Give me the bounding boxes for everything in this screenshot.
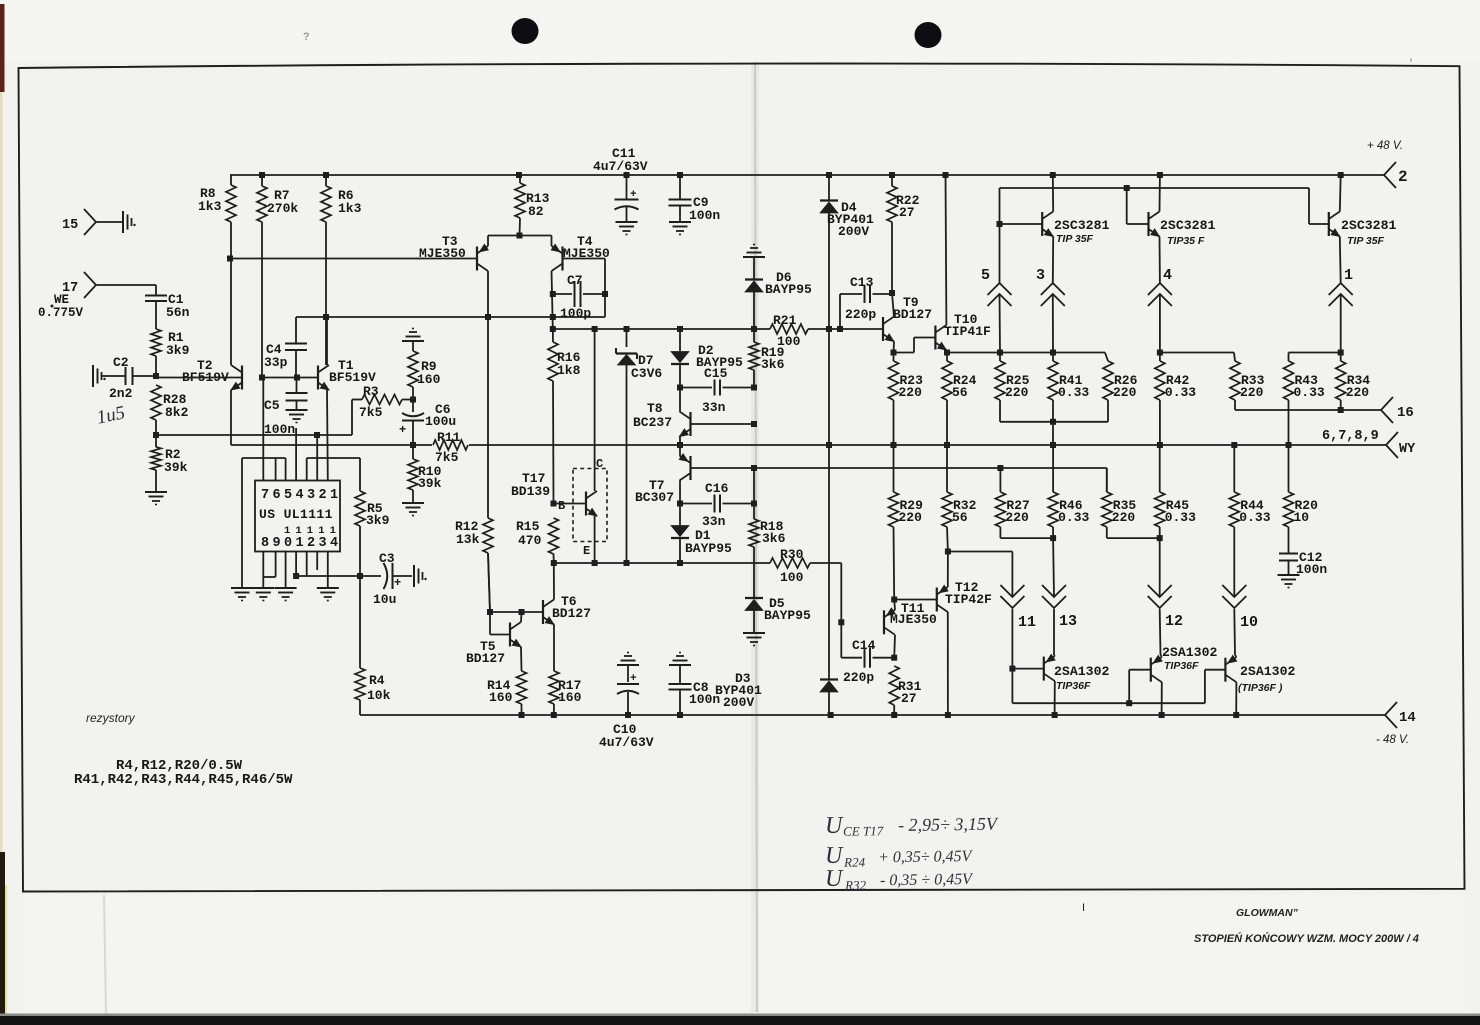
resistor R22 27 [887, 175, 920, 293]
svg-text:7654321: 7654321 [261, 488, 342, 503]
svg-text:C7: C7 [567, 273, 583, 288]
ground IC pin d [317, 587, 339, 589]
diode D3 BYP401 200V [715, 671, 838, 715]
svg-text:2SA1302: 2SA1302 [1054, 664, 1109, 679]
diode D2 BAYP95 [671, 329, 743, 388]
svg-text:TIP 35F: TIP 35F [1056, 233, 1094, 245]
svg-text:US UL1111: US UL1111 [259, 507, 333, 522]
bottom scanner black band [0, 1016, 1480, 1025]
svg-text:5: 5 [981, 267, 990, 284]
svg-text:R3: R3 [363, 384, 379, 399]
svg-text:R24: R24 [843, 854, 866, 869]
resistor R32 56 [942, 445, 977, 527]
inverted ground above C8 [669, 664, 691, 666]
output transistor 2SC3281 #1 [1042, 212, 1109, 246]
wire T5 collector [520, 612, 523, 622]
wire Q3 emitter / connector 1 column [1339, 237, 1342, 284]
IC pin stubs bottom [262, 552, 264, 589]
IC pin stubs top [262, 378, 264, 481]
svg-text:27: 27 [899, 205, 915, 220]
resistor R16 1k8 [548, 329, 581, 504]
svg-text:0.33: 0.33 [1165, 510, 1196, 525]
svg-text:C14: C14 [852, 638, 876, 653]
wire bias rail upper (y329) [553, 328, 770, 330]
svg-text:13: 13 [1059, 613, 1077, 630]
svg-text:10k: 10k [367, 688, 391, 703]
svg-text:- 2,95÷ 3,15V: - 2,95÷ 3,15V [898, 814, 999, 835]
ground at D5 [743, 632, 765, 634]
svg-text:16: 16 [1397, 405, 1414, 421]
capacitor C16 33n [680, 481, 754, 529]
ground at R10 [402, 502, 424, 504]
resistor R21 100 (inline bias rail) [770, 313, 808, 349]
wire T2 base [155, 376, 157, 378]
wire T17 base [554, 503, 587, 505]
svg-text:220: 220 [1112, 510, 1136, 525]
svg-text:6,7,8,9: 6,7,8,9 [1322, 429, 1379, 444]
svg-text:100: 100 [777, 334, 801, 349]
svg-text:220: 220 [1240, 385, 1264, 400]
resistor R13 82 [515, 175, 550, 236]
connector 14 (-48V) [1376, 702, 1416, 746]
wire T8 base line [691, 423, 755, 425]
wire base drive line y188 [1000, 187, 1310, 189]
svg-text:2SA1302: 2SA1302 [1240, 664, 1295, 679]
wire T10 emitter line to R25/R41 [947, 352, 1105, 354]
svg-text:0.33: 0.33 [1165, 385, 1196, 400]
wire T11 collector to C14/R31 [893, 635, 896, 658]
svg-text:82: 82 [528, 204, 544, 219]
svg-text:E: E [583, 544, 590, 558]
svg-text:13k: 13k [456, 532, 480, 547]
wire T3 base line [230, 258, 477, 260]
svg-text:C: C [596, 457, 603, 471]
wire T2 emitter to output rail [230, 390, 232, 445]
svg-text:CE T17: CE T17 [843, 823, 884, 839]
page fold line [751, 62, 759, 1012]
capacitor C8 100n [669, 665, 721, 715]
svg-text:U: U [825, 813, 844, 839]
border frame [19, 63, 1465, 891]
svg-text:2: 2 [1398, 168, 1408, 186]
wire T3 emitter [487, 236, 489, 247]
resistor R44 0.33 [1229, 445, 1270, 527]
capacitor C13 220p [840, 275, 892, 329]
wire base Q1 [1000, 223, 1043, 225]
svg-text:1: 1 [1344, 267, 1353, 284]
svg-text:R30: R30 [780, 547, 804, 562]
svg-text:3k9: 3k9 [366, 513, 390, 528]
wire Q2 emitter / connector 4 column [1159, 237, 1161, 284]
wire T12 collector to -48 rail [947, 612, 949, 715]
svg-text:56: 56 [952, 510, 968, 525]
resistor R20 10 [1284, 445, 1319, 527]
handwritten UR32 [825, 864, 974, 893]
svg-text:1k3: 1k3 [338, 201, 362, 216]
svg-text:160: 160 [489, 690, 513, 705]
svg-text:3k6: 3k6 [761, 357, 785, 372]
handwritten 1u5 [95, 402, 127, 428]
capacitor C12 100n [1279, 527, 1327, 577]
svg-text:U: U [825, 866, 844, 892]
resistor R27 220 [995, 468, 1029, 527]
capacitor C14 220p [841, 622, 894, 685]
transistor T6 BD127 [543, 594, 591, 625]
resistor R33 220 [1230, 361, 1265, 401]
wire 2SA1302#3 emitter [1235, 655, 1236, 657]
svg-text:8901234: 8901234 [261, 536, 342, 551]
wire T7 collector [679, 481, 681, 504]
wire T11 base [838, 619, 844, 625]
svg-text:220: 220 [1113, 385, 1137, 400]
transistor T2 BF519V [182, 358, 242, 390]
wire T8 emitter to WY rail [679, 437, 681, 446]
svg-text:470: 470 [518, 533, 542, 548]
resistor R24 56 [942, 353, 977, 401]
svg-text:WE: WE [54, 293, 69, 307]
ground IC pin a [231, 587, 253, 589]
capacitor C10 4u7/63V [599, 665, 654, 750]
svg-text:R41,R42,R43,R44,R45,R46/5W: R41,R42,R43,R44,R45,R46/5W [74, 772, 293, 788]
svg-text:+: + [394, 576, 401, 590]
capacitor C5 100n [264, 378, 308, 438]
diode D5 BAYP95 [745, 596, 811, 633]
svg-text:100n: 100n [689, 208, 720, 223]
wire Q1 emitter / connector 3 column [1052, 237, 1054, 284]
svg-text:12: 12 [1165, 613, 1183, 630]
output transistor 2SC3281 #2 [1149, 212, 1216, 248]
resistor R34 220 [1336, 353, 1371, 401]
wire +48V top rail [230, 174, 1384, 176]
svg-text:C13: C13 [850, 275, 874, 290]
capacitor C11 4u7/63V [593, 146, 648, 222]
node R7/T1 base [259, 375, 265, 381]
connector 16 [1381, 397, 1414, 423]
wire T7 emitter from WY rail [679, 445, 681, 456]
svg-text:1k3: 1k3 [198, 199, 222, 214]
svg-text:8k2: 8k2 [165, 405, 189, 420]
svg-text:- 0,35 ÷ 0,45V: - 0,35 ÷ 0,45V [880, 871, 974, 889]
resistor R11 7k5 (inline) [433, 430, 468, 465]
wire bias rail lower (y563) [554, 562, 770, 564]
ground at C5 [286, 409, 308, 411]
svg-text:2SC3281: 2SC3281 [1160, 218, 1215, 233]
svg-text:220p: 220p [845, 307, 876, 322]
svg-text:56n: 56n [166, 305, 190, 320]
wire IC to C3 node [296, 575, 360, 577]
capacitor C15 33n [680, 366, 754, 415]
handwritten UceT17 [825, 811, 999, 839]
wire T10 collector to +48 [945, 175, 948, 325]
svg-text:B: B [558, 499, 565, 513]
svg-text:C16: C16 [705, 481, 729, 496]
svg-text:200V: 200V [723, 695, 754, 710]
wire T9/T10 emitter-base step [894, 352, 915, 354]
resistor R7 270k [257, 175, 298, 376]
wire R42/R33 top link [1160, 352, 1234, 354]
connector WY 6,7,8,9 [1322, 429, 1416, 458]
wire D4 column to D3 [828, 329, 830, 445]
svg-text:10u: 10u [373, 592, 396, 607]
svg-text:33n: 33n [702, 400, 726, 415]
svg-text:14: 14 [1399, 710, 1416, 726]
diode D4 BYP401 200V [820, 175, 874, 329]
resistor R14 160 [487, 671, 527, 715]
resistor R8 1k3 [198, 175, 236, 259]
svg-text:2SC3281: 2SC3281 [1341, 218, 1396, 233]
ground at C12 [1278, 574, 1300, 576]
svg-text:3k6: 3k6 [762, 531, 786, 546]
capacitor C9 100n [669, 175, 721, 223]
connector pin 12 [1159, 538, 1161, 597]
node R22/C13/T9 collector [889, 290, 895, 296]
dark scan edge bottom-left [0, 852, 5, 1017]
svg-text:100u: 100u [425, 414, 456, 429]
resistor R43 0.33 [1284, 361, 1325, 401]
wire T12 emitter [947, 552, 949, 588]
capacitor C7 100p [550, 273, 608, 321]
svg-text:0.775V: 0.775V [38, 306, 84, 320]
svg-text:7k5: 7k5 [435, 450, 459, 465]
resistor R41 0.33 [1048, 353, 1089, 401]
transistor T8 BC237 [633, 388, 691, 437]
svg-text:TIP42F: TIP42F [945, 592, 992, 607]
output transistor 2SC3281 #3 [1329, 212, 1397, 248]
transistor T3 MJE350 [419, 234, 488, 271]
svg-text:R32: R32 [844, 877, 867, 892]
node C2/R1/R28 junction [153, 373, 159, 379]
svg-text:BAYP95: BAYP95 [765, 282, 812, 297]
svg-text:220: 220 [899, 385, 923, 400]
svg-text:TIP41F: TIP41F [944, 324, 991, 339]
resistor R4 10k [355, 576, 391, 715]
wire T12 emitter line to connector 11 [948, 551, 1013, 553]
svg-text:15: 15 [62, 218, 78, 233]
svg-text:0.33: 0.33 [1058, 385, 1089, 400]
svg-text:2n2: 2n2 [109, 386, 133, 401]
resistor R1 3k9 [151, 329, 190, 358]
output transistor 2SA1302 #2 [1151, 645, 1218, 682]
svg-text:2SC3281: 2SC3281 [1054, 218, 1109, 233]
inverted ground above C10 [617, 664, 639, 666]
resistor R6 1k3 [321, 175, 362, 365]
resistor R45 0.33 [1155, 445, 1196, 527]
svg-text:TIP36F: TIP36F [1056, 680, 1091, 692]
wire T11/T12 base link [894, 599, 937, 601]
svg-text:TIP36F: TIP36F [1164, 660, 1199, 672]
svg-text:BF519V: BF519V [329, 370, 376, 385]
resistor R31 27 [889, 666, 921, 715]
chassis ground at C2 [92, 365, 94, 387]
svg-text:R4: R4 [369, 673, 385, 688]
svg-text:BC307: BC307 [635, 490, 674, 505]
ground at R2 [145, 491, 167, 493]
svg-text:0.33: 0.33 [1239, 510, 1270, 525]
wire T10 emitter [945, 350, 948, 353]
ground at C9 [669, 221, 691, 223]
svg-text:100n: 100n [1296, 562, 1327, 577]
svg-text:2SA1302: 2SA1302 [1162, 645, 1217, 660]
transistor T11 MJE350 [884, 601, 937, 635]
svg-text:200V: 200V [838, 224, 869, 239]
wire T6 collector [553, 563, 555, 600]
svg-text:3k9: 3k9 [166, 343, 190, 358]
svg-text:T8: T8 [647, 401, 663, 416]
wire T4 collector column [552, 271, 553, 329]
wire T4 emitter [551, 236, 553, 247]
svg-text:C2: C2 [113, 355, 129, 370]
svg-text:rezystory: rezystory [86, 711, 136, 725]
wire T1 collector to R6 [326, 317, 328, 365]
transistor T4 MJE350 [551, 234, 610, 271]
wire T17 emitter [594, 516, 596, 563]
capacitor C6 100u [399, 400, 456, 446]
svg-text:C3V6: C3V6 [631, 366, 662, 381]
connector 17 WE input [38, 272, 156, 320]
svg-text:BD139: BD139 [511, 484, 550, 499]
svg-text:GLOWMAN”: GLOWMAN” [1236, 907, 1299, 919]
svg-text:BD127: BD127 [552, 606, 591, 621]
svg-text:TIP35 F: TIP35 F [1167, 235, 1205, 247]
svg-text:- 48 V.: - 48 V. [1376, 734, 1409, 746]
svg-text:R15: R15 [516, 519, 540, 534]
inverted ground above R9 [402, 340, 424, 342]
svg-text:MJE350: MJE350 [890, 612, 937, 627]
wire T4 base loop right [563, 258, 606, 260]
wire 2SA1302#1 base [1012, 668, 1043, 670]
connector pin 5 [999, 224, 1001, 283]
svg-text:TIP 35F: TIP 35F [1347, 235, 1385, 247]
wire 16 line (y410) [1235, 409, 1381, 411]
wire T9 collector [892, 293, 894, 317]
transistor T1 BF519V [318, 358, 376, 390]
svg-text:STOPIEŃ KOŃCOWY WZM. MOCY 200W: STOPIEŃ KOŃCOWY WZM. MOCY 200W / 4 [1194, 932, 1419, 945]
wire 2SA1302#1 emitter [1053, 655, 1056, 656]
svg-text:11: 11 [1018, 614, 1036, 631]
svg-text:BD127: BD127 [893, 307, 932, 322]
connector pin 4 [1148, 267, 1172, 306]
wire T6 base line [490, 611, 543, 613]
resistor R46 0.33 [1048, 445, 1089, 527]
svg-text:1k8: 1k8 [557, 363, 581, 378]
svg-text:3: 3 [1036, 267, 1045, 284]
connector 15 [62, 209, 122, 235]
zener D7 C3V6 [616, 329, 662, 563]
svg-text:BAYP95: BAYP95 [685, 541, 732, 556]
svg-text:160: 160 [417, 372, 441, 387]
svg-text:WY: WY [1399, 442, 1416, 457]
resistor R9 160 [408, 341, 441, 400]
wire T1 emitter to IC pin1 [326, 390, 329, 480]
svg-text:BC237: BC237 [633, 415, 672, 430]
punch hole right [915, 22, 942, 48]
wire pin6 bypass to ground [241, 458, 243, 588]
svg-text:220: 220 [1346, 385, 1370, 400]
svg-text:C15: C15 [704, 366, 728, 381]
wire R35 bottom to R45 column [1106, 527, 1108, 538]
resistor R12 13k [455, 317, 493, 612]
red scan edge top-left [0, 4, 5, 92]
wire R25/R26 bottoms y422 [999, 400, 1001, 422]
wire y317 line (T3 collector net) [296, 316, 605, 318]
resistor R23 220 [889, 353, 924, 401]
svg-text:100n: 100n [689, 692, 720, 707]
chassis ground at C3 [413, 565, 415, 587]
svg-text:R21: R21 [773, 313, 797, 328]
node R9/C6/R3 [410, 397, 416, 403]
capacitor C1 56n [145, 285, 190, 329]
svg-text:100n: 100n [264, 422, 295, 437]
svg-text:39k: 39k [164, 460, 188, 475]
wire output rail WY (y445) [231, 444, 432, 446]
svg-text:0.33: 0.33 [1058, 510, 1089, 525]
svg-text:+ 0,35÷ 0,45V: + 0,35÷ 0,45V [878, 848, 974, 866]
resistor R35 220 [1102, 468, 1137, 527]
resistor R30 100 (inline lower bias rail) [770, 547, 810, 585]
resistor R28 8k2 [151, 385, 189, 420]
connector pin 10 [1222, 585, 1258, 631]
resistor R17 160 [549, 671, 582, 715]
svg-text:160: 160 [558, 690, 582, 705]
svg-text:220: 220 [1005, 385, 1029, 400]
capacitor C3 10u [360, 551, 412, 607]
resistor R18 3k6 [749, 468, 786, 597]
ground at C11 [616, 221, 638, 223]
wire T7 base line (y468) [691, 467, 1107, 469]
svg-text:C3: C3 [379, 551, 395, 566]
punch hole left [512, 18, 539, 44]
connector pin 1 [1329, 267, 1353, 306]
capacitor C4 33p [264, 317, 307, 378]
svg-text:4u7/63V: 4u7/63V [599, 735, 654, 750]
svg-text:33n: 33n [702, 514, 726, 529]
svg-text:27: 27 [901, 691, 917, 706]
wire feedback stub line (y435) [156, 434, 352, 436]
wire -48V bottom rail [360, 714, 1385, 716]
transistor T9 BD127 [883, 295, 932, 342]
transistor T17 BD139 with case box [573, 469, 607, 542]
wire T11 emitter [893, 600, 896, 611]
svg-text:220: 220 [899, 510, 923, 525]
resistor R19 3k6 [749, 329, 785, 388]
connector pin 13 [1052, 538, 1055, 597]
svg-text:220p: 220p [843, 670, 874, 685]
svg-text:I: I [1082, 902, 1085, 914]
svg-text:': ' [1408, 58, 1414, 70]
diode D1 BAYP95 [671, 504, 732, 564]
svg-text:220: 220 [1005, 510, 1029, 525]
svg-text:4: 4 [1163, 267, 1172, 284]
wire Q1 collector [1052, 175, 1054, 212]
svg-text:+ 48 V.: + 48 V. [1367, 140, 1403, 152]
transistor T10 TIP41F [935, 312, 991, 350]
svg-text:10: 10 [1294, 510, 1310, 525]
resistor R15 470 [516, 518, 559, 563]
capacitor C2 2n2 [101, 355, 156, 401]
resistor R25 220 [995, 353, 1030, 401]
svg-text:4u7/63V: 4u7/63V [593, 159, 648, 174]
svg-text:56: 56 [952, 385, 968, 400]
wire base distribution lower [1011, 669, 1013, 704]
svg-text:10: 10 [1240, 614, 1258, 631]
inverted ground above D6 [743, 256, 765, 258]
wire 2SA1302#1 collector [1054, 681, 1056, 715]
node D2/C15/T8 [677, 385, 683, 391]
wire R43/R34 top link [1289, 352, 1341, 354]
output transistor 2SA1302 #3 [1225, 655, 1295, 694]
connector 2 (+48V) [1367, 140, 1408, 188]
IC US UL1111 box [255, 481, 340, 552]
